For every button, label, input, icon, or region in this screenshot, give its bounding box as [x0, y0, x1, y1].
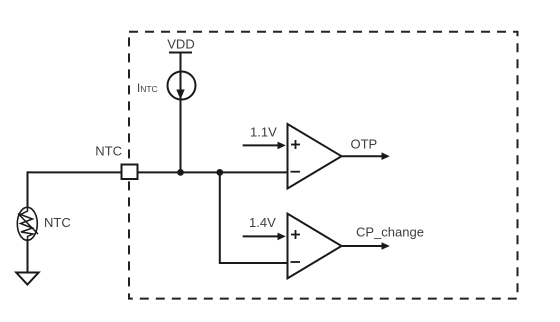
svg-text:VDD: VDD: [167, 37, 194, 52]
svg-text:NTC: NTC: [44, 215, 71, 230]
svg-text:CP_change: CP_change: [356, 224, 424, 239]
svg-text:OTP: OTP: [351, 136, 378, 151]
svg-text:NTC: NTC: [95, 144, 122, 159]
svg-text:1.4V: 1.4V: [249, 215, 276, 230]
svg-text:1.1V: 1.1V: [250, 124, 277, 139]
svg-text:INTC: INTC: [137, 83, 158, 95]
